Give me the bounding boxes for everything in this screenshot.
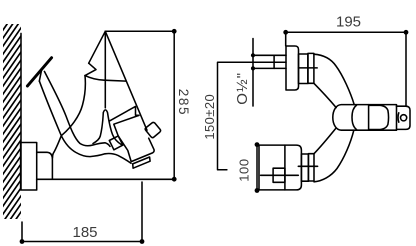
dim 285 dot top [172,29,177,34]
end circle [401,115,407,121]
collar line [85,76,126,82]
spout outer curve [39,81,61,158]
lower nut [308,154,314,181]
dim 195 ext right [405,32,407,105]
dim 195 dot left [283,30,288,35]
upper union [299,54,308,84]
svg-text:150±20: 150±20 [202,94,217,140]
dim 195 ext left [285,32,287,45]
dim 285 extension [105,30,174,32]
right tab [145,122,160,137]
dim 195 line [286,31,406,33]
dim 100 dot bottom [255,188,260,193]
svg-text:100: 100 [237,158,252,182]
body stub from escutcheon [37,152,53,179]
svg-text:285: 285 [176,89,191,116]
spout inner curve [44,71,110,146]
wall hatching [0,0,24,246]
lower flange divider [284,145,286,190]
base bottom line [37,178,175,180]
center vertical line [104,31,106,108]
cartridge body top ridge [110,106,139,120]
dim 185 ext right [141,182,143,242]
escutcheon (wall plate, side view) [21,143,37,191]
thread leader vertical [252,39,254,107]
bottom cap [133,157,150,168]
dim 285 dot bottom [172,177,177,182]
lever handle (thick) [27,58,51,86]
pipe top line [253,54,286,56]
svg-text:195: 195 [336,14,361,31]
knob right blob [369,105,388,129]
wall face edge [20,33,22,189]
upper flange [286,46,299,90]
svg-text:185: 185 [72,224,97,241]
pipe bottom line [253,67,286,69]
lever stem left [39,71,41,81]
knob divider [368,105,370,131]
lower arm outer edge [314,130,354,182]
spout notch zigzag [85,63,96,75]
dim 100 line [256,145,258,191]
capsule right section [397,106,411,129]
dim 285 line [173,31,175,179]
triangle right side [105,31,147,130]
lower arm inner edge [314,128,336,153]
svg-text:O½": O½" [234,72,251,105]
lower center line [261,174,299,176]
upper axis line [299,67,318,69]
body capsule [333,105,397,131]
lower flange outer [259,145,301,190]
leader dot bottom [251,66,255,70]
upper arm outer edge [314,54,354,104]
upper nut [308,53,314,83]
inner small arc [397,113,400,122]
pipe end [273,55,275,68]
inner arch [93,110,121,145]
dim 100 dot top [255,142,260,147]
dim 185 line [22,241,142,243]
dim 195 dot right [404,30,409,35]
cartridge body outline [114,115,154,161]
lower axis line [298,165,317,167]
triangle left side upper [89,31,106,63]
leader dot top [251,53,255,57]
dim 185 dot left [20,239,25,244]
left tab [109,136,123,150]
dim 185 dot right [140,239,145,244]
spout lower wall to body [61,136,131,164]
dim 185 ext left [21,222,23,242]
upper arm inner edge [314,83,336,107]
lower pipe box [273,168,285,182]
dim 150+-20 bracket [218,62,287,170]
knob left arc [352,105,357,129]
triangle left side lower [61,76,85,136]
lower union [301,154,308,181]
